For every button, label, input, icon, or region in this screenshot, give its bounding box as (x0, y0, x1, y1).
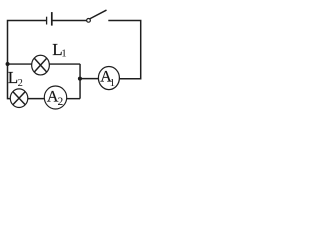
svg-text:1: 1 (61, 48, 66, 60)
svg-text:1: 1 (110, 77, 116, 89)
svg-text:2: 2 (58, 96, 64, 108)
svg-text:2: 2 (18, 78, 23, 89)
